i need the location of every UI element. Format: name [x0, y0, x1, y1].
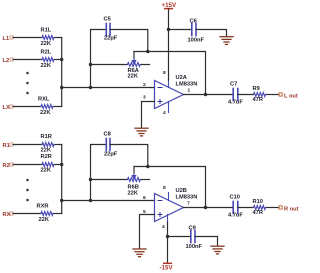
wire R1 to R1R — [13, 144, 42, 146]
node RX — [3, 212, 14, 218]
wire C10 to R10 — [238, 207, 254, 209]
node R2 — [3, 163, 14, 169]
svg-text:22pF: 22pF — [104, 151, 118, 157]
pin 4 stub U2A — [168, 102, 170, 113]
op-amp U2B LM833N — [155, 188, 198, 222]
power terminal -15V — [160, 263, 174, 271]
wire U2B pin5 to ground — [140, 215, 155, 249]
power terminal +15V — [162, 2, 177, 9]
junction bus/R2 — [60, 163, 63, 166]
svg-text:7: 7 — [187, 200, 190, 206]
svg-text:47R: 47R — [253, 97, 263, 103]
junction riser/summing — [89, 86, 92, 89]
wire U2B output to C10 — [184, 207, 234, 209]
svg-text:R2L: R2L — [41, 50, 52, 56]
node L2 — [3, 58, 14, 64]
svg-text:3: 3 — [143, 94, 146, 100]
wire wiper line to output drop — [134, 52, 206, 95]
pin 8 stub U2A — [168, 80, 170, 88]
resistor R10 47R — [253, 199, 280, 216]
ground (C6) — [220, 37, 233, 45]
svg-text:4.7uF: 4.7uF — [228, 212, 243, 218]
svg-text:L2: L2 — [3, 58, 10, 64]
wire L1 to R1L — [13, 37, 42, 39]
svg-text:L1: L1 — [3, 36, 10, 42]
svg-text:LM833N: LM833N — [176, 81, 198, 87]
svg-text:C7: C7 — [230, 81, 237, 87]
svg-text:R2: R2 — [3, 163, 10, 169]
svg-text:2: 2 — [143, 82, 146, 88]
wire feedback riser — [91, 30, 107, 88]
wire C5 to drop — [110, 30, 148, 52]
svg-text:C5: C5 — [104, 17, 111, 23]
svg-text:LX: LX — [3, 105, 10, 111]
wire rail to C9 — [168, 236, 191, 238]
svg-text:R out: R out — [284, 206, 299, 212]
resistor R6B 22K preset — [91, 174, 150, 197]
svg-text:RX: RX — [3, 212, 11, 218]
svg-text:RXL: RXL — [38, 97, 50, 103]
resistor R2R — [41, 154, 62, 174]
wire C8 to drop — [110, 145, 148, 167]
node L out — [279, 93, 298, 99]
ground (C9) — [211, 246, 224, 254]
wire wiper line to output drop — [134, 167, 206, 208]
svg-text:22pF: 22pF — [104, 35, 118, 41]
svg-text:8: 8 — [163, 185, 166, 191]
svg-text:6: 6 — [143, 195, 146, 201]
svg-text:LM833N: LM833N — [176, 194, 198, 200]
svg-text:22K: 22K — [41, 41, 52, 47]
junction output/feedback — [204, 206, 207, 209]
wire summing line to U2A pin2 — [62, 87, 155, 89]
capacitor C5 22pF — [104, 17, 118, 42]
wire L summing bus — [61, 38, 63, 107]
svg-text:U2B: U2B — [176, 188, 187, 194]
wire C7 to R9 — [238, 94, 254, 96]
ellipsis (more R inputs) — [26, 179, 29, 202]
capacitor C10 4.7uF — [228, 194, 243, 218]
wire U2B pin4 to -15V — [167, 222, 169, 263]
wire U2A pin3 to ground — [142, 102, 155, 128]
wire LX to RXL — [13, 106, 41, 108]
svg-text:C9: C9 — [189, 226, 196, 232]
resistor RXR — [37, 204, 62, 224]
junction riser/R6A — [89, 63, 92, 66]
capacitor C6 100nF — [188, 19, 205, 44]
resistor R2L — [41, 50, 62, 69]
capacitor C9 100nF — [186, 226, 203, 251]
svg-text:22K: 22K — [41, 63, 52, 69]
wire wiper stem — [133, 167, 135, 174]
resistor R9 47R — [253, 86, 280, 103]
svg-text:R1L: R1L — [41, 28, 52, 34]
wire summing line to U2B pin6 — [62, 200, 155, 202]
wire wiper stem — [133, 52, 135, 59]
wire RX to RXR — [13, 213, 41, 215]
ground (U2B pin5) — [133, 249, 146, 257]
ellipsis (more L inputs) — [26, 72, 29, 95]
wire feedback riser — [91, 145, 107, 201]
junction drop/wiper line — [146, 165, 149, 168]
pin 4 stub U2B — [167, 215, 169, 223]
wire R summing bus — [61, 145, 63, 214]
op-amp U2A LM833N — [155, 75, 198, 109]
svg-text:C8: C8 — [104, 132, 111, 138]
node R1 — [3, 143, 14, 149]
wire L2 to R2L — [13, 59, 42, 61]
junction pin4/C9 — [166, 235, 169, 238]
svg-text:C6: C6 — [190, 19, 197, 25]
capacitor C8 22pF — [104, 132, 118, 158]
junction drop/wiper line — [146, 50, 149, 53]
svg-text:-15V: -15V — [160, 265, 174, 272]
svg-text:100nF: 100nF — [188, 37, 205, 43]
junction riser/summing — [89, 199, 92, 202]
svg-text:C10: C10 — [230, 194, 240, 200]
wire U2A output to C7 — [184, 94, 234, 96]
svg-text:R1: R1 — [3, 143, 10, 149]
svg-text:4: 4 — [163, 110, 166, 116]
junction bus/L2 — [60, 58, 63, 61]
svg-text:U2A: U2A — [176, 75, 187, 81]
svg-text:R1R: R1R — [41, 134, 52, 140]
wire C9 to ground — [195, 237, 218, 246]
resistor R1R — [41, 134, 62, 154]
resistor RXL — [38, 97, 62, 117]
wire rail to C6 — [169, 29, 192, 31]
svg-text:22K: 22K — [39, 217, 50, 223]
junction bus/summing — [60, 199, 63, 202]
svg-text:4: 4 — [162, 224, 165, 230]
ground (U2A pin3) — [135, 128, 148, 136]
wire +15V to U2A pin8 — [168, 9, 170, 80]
svg-text:R2R: R2R — [41, 154, 52, 160]
capacitor C7 4.7uF — [228, 81, 243, 105]
svg-text:22K: 22K — [41, 168, 52, 174]
svg-text:1: 1 — [188, 87, 191, 93]
svg-text:RXR: RXR — [37, 204, 49, 210]
resistor R6A 22K preset — [91, 59, 150, 80]
node R out — [279, 206, 299, 212]
pin 8 stub U2B — [168, 193, 170, 201]
svg-text:47R: 47R — [253, 210, 263, 216]
svg-text:R10: R10 — [253, 199, 263, 205]
svg-text:22K: 22K — [128, 190, 139, 196]
junction riser/R6B — [89, 178, 92, 181]
junction +15V/C6 — [167, 28, 170, 31]
wire R2 to R2R — [13, 164, 42, 166]
svg-text:8: 8 — [163, 70, 166, 76]
junction bus/summing — [60, 86, 63, 89]
svg-text:22K: 22K — [40, 110, 51, 116]
node L1 — [3, 36, 14, 42]
svg-text:22K: 22K — [128, 74, 139, 80]
svg-text:L out: L out — [284, 93, 298, 99]
svg-text:100nF: 100nF — [186, 244, 203, 250]
svg-text:4.7uF: 4.7uF — [228, 99, 243, 105]
svg-text:22K: 22K — [41, 148, 52, 154]
node LX — [3, 105, 14, 111]
wire C6 to ground — [196, 30, 227, 37]
resistor R1L — [41, 28, 62, 48]
junction output/feedback — [204, 93, 207, 96]
svg-text:R9: R9 — [253, 86, 260, 92]
